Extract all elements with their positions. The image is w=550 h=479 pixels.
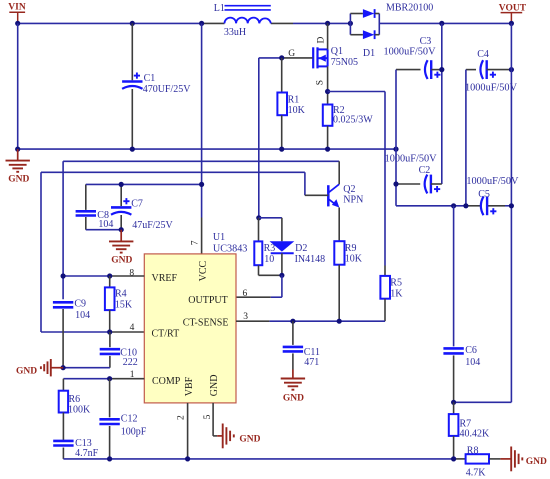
svg-text:GND: GND <box>111 255 132 265</box>
svg-text:R1: R1 <box>288 94 300 105</box>
svg-text:R8: R8 <box>467 446 479 457</box>
pin CT-SENSE name <box>183 317 229 328</box>
svg-text:C12: C12 <box>121 414 138 425</box>
junction R3 D2 bottom <box>279 273 284 278</box>
svg-text:C1: C1 <box>144 73 156 84</box>
wire C3 left drop <box>395 70 397 206</box>
junction D1 anode <box>348 21 353 26</box>
svg-text:VCC: VCC <box>198 261 209 282</box>
svg-text:GND: GND <box>8 175 29 185</box>
pin number 8 <box>129 269 134 279</box>
svg-text:104: 104 <box>98 219 113 230</box>
wire Q1 gate lead <box>282 57 313 59</box>
junction C9 top at VREF <box>61 273 66 278</box>
pin number 6 <box>243 289 248 299</box>
pin number 5 <box>203 414 213 419</box>
wire source sense to R5 <box>328 92 385 266</box>
svg-text:100K: 100K <box>68 404 91 415</box>
diode D1 MBR20100 (dual schottky) <box>350 3 433 59</box>
junction R7 R8 at bus <box>451 456 456 461</box>
ground symbol GND sideways left <box>16 359 63 376</box>
wire VOUT right drop <box>454 23 512 402</box>
svg-text:C4: C4 <box>477 49 489 60</box>
svg-text:10K: 10K <box>345 254 363 265</box>
wire Q2 base lead <box>305 172 328 195</box>
wire Q1 drain lead <box>327 23 329 49</box>
wire C7 C8 bottom rail <box>86 229 121 231</box>
pin OUTPUT name <box>188 295 227 306</box>
svg-text:D1: D1 <box>363 48 375 59</box>
svg-text:75N05: 75N05 <box>331 57 358 68</box>
wire VCC line from tap to U1 pin 7 <box>201 23 203 254</box>
wire output rail to VOUT <box>379 22 511 24</box>
wire C7 C8 top rail <box>86 183 202 185</box>
wire CT-SENSE pin 3 <box>236 320 385 322</box>
svg-text:0.025/3W: 0.025/3W <box>333 115 373 126</box>
svg-text:D2: D2 <box>295 243 307 254</box>
svg-text:CT/RT: CT/RT <box>152 329 180 340</box>
resistor R1 10K <box>277 58 305 149</box>
svg-text:6: 6 <box>243 289 248 299</box>
ground symbol GND at pin 5 <box>217 424 260 449</box>
svg-text:Q2: Q2 <box>343 184 355 195</box>
svg-text:R4: R4 <box>115 289 127 300</box>
capacitor C13 4.7nF <box>53 438 98 459</box>
capacitor C4 1000uF/50V <box>465 49 518 94</box>
junction C4 plus <box>509 67 514 72</box>
svg-text:4.7nF: 4.7nF <box>75 448 99 459</box>
capacitor C9 104 <box>53 298 90 367</box>
junction C1 top <box>130 21 135 26</box>
junction C11 top <box>290 319 295 324</box>
junction R9 bottom <box>337 319 342 324</box>
ground symbol GND under C11 <box>281 370 305 404</box>
wire Q2 collector lead <box>338 161 340 184</box>
junction VIN corner <box>15 21 20 26</box>
junction C7 top <box>119 182 124 187</box>
junction VOUT corner <box>509 21 514 26</box>
node VIN (power port) <box>8 3 26 24</box>
junction R3 D2 top <box>256 215 261 220</box>
wire gate driver vertical <box>258 58 260 218</box>
svg-text:GND: GND <box>16 366 37 376</box>
capacitor C7 47uF/25V <box>111 184 174 231</box>
pin VBF name <box>184 376 195 396</box>
junction R4 top <box>107 273 112 278</box>
wire feedback bus <box>63 458 453 460</box>
wire GND pin 5 <box>213 403 217 436</box>
junction R7 top <box>451 400 456 405</box>
wire COMP pin 1 <box>63 378 144 380</box>
pin G label of Q1 <box>288 49 295 59</box>
svg-text:U1: U1 <box>213 232 225 243</box>
capacitor C8 104 <box>76 184 114 230</box>
pin COMP name <box>152 376 181 387</box>
capacitor C1 470UF/25V <box>122 23 191 149</box>
svg-text:C5: C5 <box>478 189 490 200</box>
capacitor C6 104 <box>443 206 480 402</box>
transistor Q2 NPN <box>328 184 363 208</box>
svg-text:C7: C7 <box>131 199 143 210</box>
svg-text:8: 8 <box>129 269 134 279</box>
junction C2 left <box>393 181 398 186</box>
svg-text:VIN: VIN <box>8 3 26 13</box>
svg-text:7: 7 <box>191 240 201 245</box>
svg-text:100pF: 100pF <box>121 427 147 438</box>
junction ground rail left <box>15 147 20 152</box>
pin VCC name <box>198 261 209 282</box>
ground symbol GND right of R8 <box>500 447 547 472</box>
pin number 3 <box>243 312 248 322</box>
svg-text:R9: R9 <box>345 243 357 254</box>
resistor R8 4.7K <box>454 446 501 479</box>
svg-text:1000uF/50V: 1000uF/50V <box>465 83 518 94</box>
wire gate drive from driver node <box>259 57 282 59</box>
svg-text:GND: GND <box>526 457 547 467</box>
svg-text:VBF: VBF <box>184 376 195 396</box>
junction C10 top at CTRT <box>107 329 112 334</box>
pin number 7 <box>191 240 201 245</box>
capacitor C10 222 <box>100 332 138 368</box>
junction gate / R1 <box>279 55 284 60</box>
junction VCC line at C7 rail <box>199 182 204 187</box>
svg-text:GND: GND <box>239 434 260 444</box>
pin number 2 <box>177 415 187 420</box>
svg-text:GND: GND <box>209 375 220 397</box>
svg-text:4.7K: 4.7K <box>466 468 487 479</box>
junction pin 2 at bus <box>185 456 190 461</box>
svg-text:VREF: VREF <box>152 273 178 284</box>
pin S label of Q1 <box>316 80 326 85</box>
capacitor C3 1000uF/50V <box>384 36 442 79</box>
wire R3-D2 top link <box>259 217 282 219</box>
wire CTRT-to-Q2-base line <box>41 172 305 332</box>
svg-text:10: 10 <box>264 254 274 265</box>
svg-text:33uH: 33uH <box>224 27 246 38</box>
pin D label of Q1 <box>316 37 326 44</box>
svg-text:C2: C2 <box>419 165 431 176</box>
pin number 1 <box>130 370 135 380</box>
resistor R3 10 <box>254 218 282 275</box>
junction C7 bottom <box>119 227 124 232</box>
resistor R7 40.42K <box>449 402 490 459</box>
junction R1 bottom <box>279 147 284 152</box>
svg-text:222: 222 <box>123 357 138 368</box>
capacitor C12 100pF <box>99 379 146 459</box>
junction C12 bottom <box>107 456 112 461</box>
junction C4 bottom <box>463 203 468 208</box>
svg-text:2: 2 <box>177 415 187 420</box>
wire C3 right branch <box>441 23 443 184</box>
ground symbol GND left <box>6 149 30 185</box>
svg-text:Q1: Q1 <box>331 46 343 57</box>
wire VREF pin 8 <box>63 275 144 277</box>
junction analog ground <box>61 365 66 370</box>
svg-text:R6: R6 <box>69 394 81 405</box>
svg-text:1000uF/50V: 1000uF/50V <box>385 154 438 165</box>
junction C12 top at COMP <box>107 376 112 381</box>
diode D2 IN4148 <box>270 218 326 275</box>
wire ground rail <box>18 148 396 150</box>
svg-text:104: 104 <box>75 310 90 321</box>
svg-text:UC3843: UC3843 <box>213 244 248 255</box>
chip U1 UC3843 <box>144 232 247 403</box>
svg-text:S: S <box>316 80 326 85</box>
svg-text:1K: 1K <box>390 288 403 299</box>
resistor R4 15K <box>105 276 133 332</box>
svg-text:104: 104 <box>465 357 480 368</box>
wire VREF-to-Q2-collector line <box>63 161 339 299</box>
node VOUT (power port) <box>499 4 527 24</box>
svg-text:471: 471 <box>304 357 319 368</box>
junction ground rail right end <box>393 147 398 152</box>
wire D2 to OUTPUT pin <box>236 275 282 297</box>
capacitor C5 1000uF/50V <box>466 176 519 215</box>
junction Q1 drain on rail <box>325 21 330 26</box>
ground symbol GND under C7 <box>109 230 133 266</box>
inductor L1 33uH <box>214 3 271 38</box>
svg-text:NPN: NPN <box>343 195 363 206</box>
capacitor C2 1000uF/50V <box>385 154 442 194</box>
junction C3 branch top <box>439 21 444 26</box>
wire output ground return <box>396 205 511 207</box>
svg-text:MBR20100: MBR20100 <box>386 3 433 14</box>
svg-text:40.42K: 40.42K <box>460 429 491 440</box>
resistor R2 0.025/3W <box>323 92 373 150</box>
resistor R9 10K <box>334 241 363 321</box>
capacitor C11 471 <box>283 321 320 369</box>
svg-text:1000uF/50V: 1000uF/50V <box>384 46 437 57</box>
svg-text:47uF/25V: 47uF/25V <box>132 220 173 231</box>
junction C6 top <box>451 203 456 208</box>
wire VIN left drop <box>17 23 19 149</box>
wire Q2 emitter lead <box>338 208 340 242</box>
svg-text:GND: GND <box>283 394 304 404</box>
resistor R5 1K <box>380 266 403 322</box>
pin CT/RT name <box>152 329 180 340</box>
wire C4 left drop <box>465 70 467 206</box>
transistor Q1 75N05 N-MOSFET <box>313 46 358 68</box>
svg-text:1000uF/50V: 1000uF/50V <box>466 176 519 187</box>
wire VIN top rail <box>18 22 351 24</box>
wire VBF pin 2 to bus <box>187 403 189 459</box>
svg-text:10K: 10K <box>288 105 306 116</box>
svg-text:470UF/25V: 470UF/25V <box>143 84 192 95</box>
junction C5 plus at VOUT line <box>509 203 514 208</box>
svg-text:15K: 15K <box>115 300 133 311</box>
pin number 4 <box>130 323 135 333</box>
svg-text:CT-SENSE: CT-SENSE <box>183 317 229 328</box>
svg-text:IN4148: IN4148 <box>295 254 326 265</box>
svg-text:R5: R5 <box>390 278 402 289</box>
junction Q1 source sense <box>325 89 330 94</box>
junction C1 bottom <box>130 147 135 152</box>
svg-text:4: 4 <box>130 323 135 333</box>
svg-text:C9: C9 <box>74 298 86 309</box>
svg-text:D: D <box>316 37 326 44</box>
svg-text:L1: L1 <box>214 3 225 14</box>
pin VREF name <box>152 273 178 284</box>
junction C3 plus <box>439 67 444 72</box>
wire Q1 source lead <box>327 66 329 91</box>
svg-text:OUTPUT: OUTPUT <box>188 295 227 306</box>
resistor R6 100K <box>59 379 91 440</box>
wire C9 C10 ground link <box>63 367 110 369</box>
pin GND name <box>209 375 220 397</box>
junction R2 bottom <box>325 147 330 152</box>
svg-text:COMP: COMP <box>152 376 181 387</box>
svg-text:5: 5 <box>203 414 213 419</box>
junction VCC tap <box>199 21 204 26</box>
svg-text:C6: C6 <box>465 345 477 356</box>
